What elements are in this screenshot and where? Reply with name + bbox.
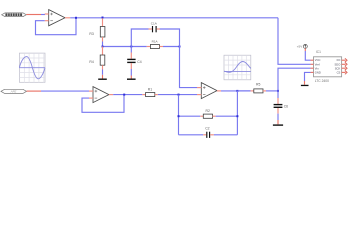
node R2 left bbox=[178, 115, 180, 117]
node C4 top bbox=[130, 46, 132, 48]
node U2 out bbox=[236, 90, 238, 92]
ground under C6 bbox=[273, 124, 283, 125]
pin GND stub bbox=[311, 71, 314, 73]
wire main top net bbox=[70, 17, 278, 19]
resistor R1 bbox=[142, 88, 158, 97]
node U3 out bbox=[123, 94, 125, 96]
svg-text:R1: R1 bbox=[148, 88, 152, 92]
ground under R4 bbox=[98, 79, 107, 80]
node loop right bbox=[179, 46, 181, 48]
power +5V bbox=[297, 44, 311, 60]
svg-text:LTC 2400: LTC 2400 bbox=[315, 79, 329, 83]
resistor R2 bbox=[200, 109, 215, 118]
resistor R4 bbox=[89, 47, 104, 79]
svg-text:C6: C6 bbox=[284, 104, 288, 108]
node R5 right bbox=[277, 90, 279, 92]
wire divider node row bbox=[103, 46, 180, 48]
capacitor C2 bbox=[203, 126, 214, 138]
resistor R5 bbox=[237, 82, 278, 93]
signal preview box 1 bbox=[19, 53, 45, 82]
svg-text:R1A: R1A bbox=[152, 39, 159, 43]
svg-text:AFE: AFE bbox=[10, 90, 18, 94]
pin Vref stub bbox=[311, 63, 314, 65]
node R2 right bbox=[236, 115, 238, 117]
wire divider to U2 minus bbox=[180, 47, 198, 88]
capacitor C6 bbox=[274, 91, 289, 124]
pin Vin stub bbox=[311, 67, 314, 69]
svg-text:R5: R5 bbox=[256, 82, 260, 86]
wire C1A loop bbox=[131, 29, 179, 47]
terminal tag SINUSIN bbox=[2, 13, 27, 17]
op-amp U1 bbox=[45, 10, 70, 26]
wire junction to Vin bbox=[278, 68, 311, 91]
pin SCK stub bbox=[342, 66, 348, 70]
signal preview box 2 bbox=[224, 55, 251, 80]
pin CS stub bbox=[342, 71, 348, 75]
node R3 top bbox=[102, 17, 104, 19]
wire GND pin to ground bbox=[305, 72, 311, 84]
op-amp U3 bbox=[89, 87, 113, 103]
wire U1 feedback loop bbox=[36, 18, 77, 35]
wire top net to Vref bbox=[278, 18, 311, 65]
capacitor C1A bbox=[149, 22, 161, 33]
svg-text:IC1: IC1 bbox=[316, 50, 321, 54]
node fb join bbox=[178, 94, 180, 96]
node R3 bottom bbox=[102, 46, 104, 48]
op-amp U2 bbox=[197, 83, 221, 99]
ground under C4 bbox=[127, 79, 136, 80]
IC1 LTC2400 bbox=[314, 50, 342, 83]
terminal tag AFE bbox=[1, 89, 27, 93]
wire tag1 to U1 bbox=[26, 14, 45, 16]
wire U3 feedback loop bbox=[82, 95, 124, 113]
wire tag2 to U3 bbox=[27, 90, 90, 92]
svg-text:C4: C4 bbox=[137, 60, 141, 64]
wire U2 feedback loops bbox=[179, 91, 238, 135]
pin SDO stub bbox=[342, 62, 348, 66]
svg-text:+5V: +5V bbox=[297, 45, 302, 49]
wire U2 out bbox=[221, 90, 251, 92]
wire U3 out row bbox=[113, 94, 197, 96]
svg-text:R3: R3 bbox=[89, 32, 93, 36]
resistor R3 bbox=[89, 18, 105, 46]
svg-text:C2: C2 bbox=[205, 126, 209, 130]
pin VCC stub bbox=[311, 59, 314, 61]
svg-text:R4: R4 bbox=[89, 60, 93, 64]
pin FO stub bbox=[342, 58, 348, 62]
node U1 out bbox=[75, 17, 77, 19]
svg-text:R2: R2 bbox=[206, 109, 210, 113]
capacitor C4 bbox=[127, 47, 142, 79]
svg-text:C1A: C1A bbox=[151, 22, 158, 26]
ground under GND pin bbox=[301, 85, 309, 86]
resistor R1A bbox=[147, 39, 163, 48]
